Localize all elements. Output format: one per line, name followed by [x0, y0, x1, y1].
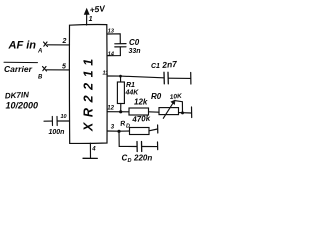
svg-text:12: 12	[107, 106, 114, 112]
ground	[83, 157, 97, 159]
svg-text:470k: 470k	[131, 114, 151, 124]
resistor R1 lead top	[120, 76, 122, 82]
label C1	[151, 63, 160, 70]
terminal bar C1	[190, 73, 192, 85]
svg-text:A: A	[37, 49, 42, 55]
pin number 11	[103, 71, 109, 77]
svg-text:2n7: 2n7	[161, 59, 179, 70]
svg-text:2: 2	[62, 38, 67, 45]
IC U1 label XR2211	[82, 53, 96, 132]
pin number 2	[62, 38, 67, 45]
svg-text:33n: 33n	[129, 48, 141, 55]
wire R0 to potentiometer	[149, 111, 160, 113]
pin number 13	[108, 29, 114, 35]
wire pin 12 to R0	[107, 111, 129, 113]
svg-text:10: 10	[61, 114, 67, 120]
node A subscript	[37, 49, 42, 55]
svg-text:C0: C0	[129, 38, 140, 47]
svg-text:C1: C1	[151, 63, 160, 70]
wire capacitor 100n to pin 10	[57, 120, 69, 122]
value label 470k	[131, 114, 151, 124]
junction node pin 3 / CD branch	[117, 130, 120, 133]
capacitor 100n plates	[52, 117, 57, 126]
value label 44K	[125, 90, 140, 97]
label C0	[129, 38, 140, 47]
pin number 12	[107, 106, 114, 112]
junction node pin 11 / R1	[119, 75, 122, 78]
label R1	[126, 82, 135, 89]
capacitor 100n lead left	[44, 120, 52, 122]
date text 10/2000	[6, 101, 39, 111]
value label 100n	[49, 129, 65, 136]
svg-text:1: 1	[89, 16, 93, 23]
svg-text:R0: R0	[151, 92, 162, 101]
svg-text:R1: R1	[126, 82, 135, 89]
resistor R0 body	[129, 108, 149, 115]
wire node A to pin 2	[48, 44, 70, 46]
terminal bar CD	[157, 142, 159, 150]
junction node pin 12 / R1	[119, 110, 122, 113]
wire RD to terminal	[149, 129, 158, 131]
pin number 10	[61, 114, 67, 120]
svg-text:DK7IN: DK7IN	[5, 90, 30, 100]
resistor RD body	[130, 128, 150, 135]
svg-text:14: 14	[108, 52, 114, 58]
svg-text:B: B	[38, 75, 43, 81]
terminal bar RD	[157, 125, 159, 133]
value label 10K	[169, 93, 183, 101]
connector mark node A	[44, 42, 48, 47]
wire pin 13 to C0	[107, 34, 120, 44]
wire pin 3 to RD	[107, 130, 130, 132]
svg-text:5: 5	[62, 64, 66, 71]
svg-text:44K: 44K	[125, 90, 140, 97]
wire C0 to pin 14	[107, 47, 120, 56]
wire pin 11 to C1	[107, 76, 163, 78]
svg-text:4: 4	[91, 147, 96, 153]
svg-text:+5V: +5V	[89, 3, 107, 15]
svg-text:10K: 10K	[169, 93, 183, 101]
wire node B to pin 5	[47, 69, 70, 71]
capacitor C1 plates	[164, 72, 168, 84]
potentiometer 10K body	[159, 108, 179, 115]
svg-text:D: D	[128, 158, 132, 164]
wire C1 to terminal	[168, 77, 190, 79]
potentiometer 10K wiper arrow	[163, 100, 175, 118]
svg-text:10/2000: 10/2000	[6, 101, 39, 111]
pin number 3	[111, 125, 115, 131]
pin number 14	[108, 52, 114, 58]
svg-text:XR2211: XR2211	[82, 53, 96, 132]
svg-text:R: R	[120, 120, 126, 128]
resistor R1 body	[117, 82, 124, 104]
svg-text:Carrier: Carrier	[4, 64, 33, 74]
pin number 4	[91, 147, 96, 153]
node B : Carrier label with overline	[4, 62, 38, 74]
value label 12k	[134, 98, 148, 107]
pin number 1	[89, 16, 93, 23]
wire junction down to CD	[119, 131, 137, 146]
value label 2n7	[161, 59, 179, 70]
+5V supply arrow	[84, 9, 89, 15]
connector mark node B	[43, 67, 47, 72]
wire pin 4 to ground	[89, 143, 91, 158]
node B subscript	[38, 75, 43, 81]
label CD with value 220n	[122, 154, 153, 165]
svg-text:100n: 100n	[49, 129, 65, 136]
IC U1 XR2211 body	[69, 25, 107, 144]
terminal bar potentiometer	[191, 107, 193, 118]
resistor R1 lead bottom	[120, 104, 122, 112]
svg-text:AF in: AF in	[8, 40, 37, 52]
wire wiper to output node	[176, 101, 183, 113]
capacitor C0 plates	[115, 44, 126, 47]
wire potentiometer to terminal	[179, 112, 192, 114]
label RD	[120, 120, 130, 129]
node A : AF in label	[8, 40, 37, 52]
wire CD to terminal	[142, 146, 158, 148]
author text DK7IN	[5, 90, 30, 100]
capacitor CD plates	[137, 142, 142, 152]
label +5V	[89, 3, 107, 15]
svg-text:D: D	[126, 124, 130, 130]
label R0	[151, 92, 162, 101]
pin number 5	[62, 64, 66, 71]
svg-text:220n: 220n	[133, 154, 152, 163]
junction node wiper / output	[181, 111, 184, 114]
value label 33n	[129, 48, 141, 55]
wire pin 1 to +5V	[86, 11, 88, 26]
svg-text:12k: 12k	[134, 98, 148, 107]
